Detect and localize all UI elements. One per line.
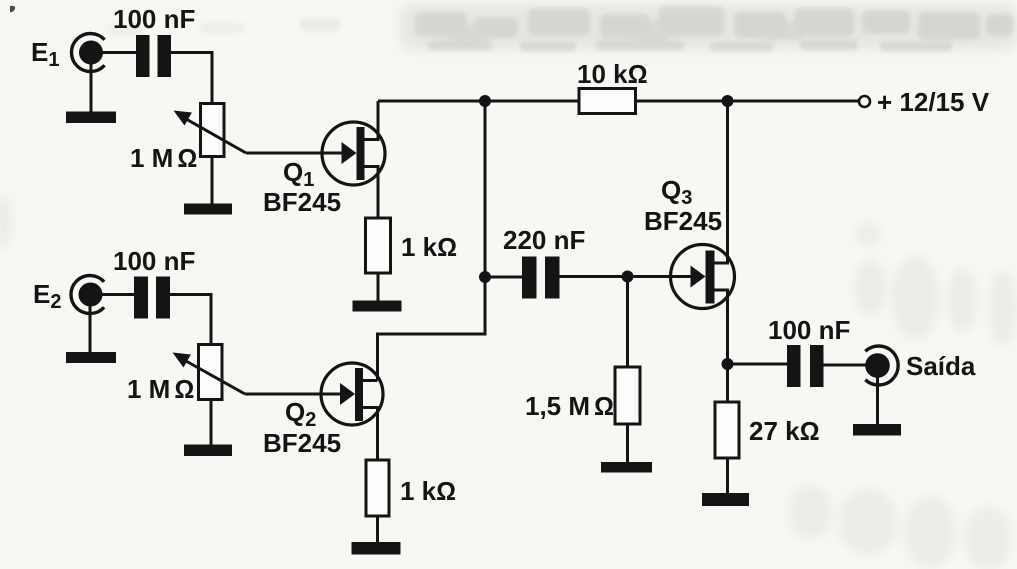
capacitor C2 100 nF (134, 277, 170, 319)
wire node A column down to Q2 drain (378, 101, 486, 381)
node junction output (722, 358, 734, 370)
JFET Q3 (671, 245, 735, 309)
ground under P2 (184, 445, 232, 457)
ground under R5 (601, 462, 652, 473)
wire P2 bottom to ground (210, 400, 213, 449)
node junction A-C3 (479, 271, 491, 283)
svg-text:27 kΩ: 27 kΩ (749, 416, 820, 446)
svg-text:Saída: Saída (906, 351, 976, 381)
potentiometer P2 1 MΩ (173, 345, 246, 400)
wire R4 to ground (376, 516, 379, 546)
wire supply rail right (636, 100, 861, 103)
resistor R1 10 kΩ (579, 89, 636, 114)
wire Q1 drain to rail (365, 101, 379, 140)
node junction rail-A (479, 95, 491, 107)
svg-text:100 nF: 100 nF (113, 4, 195, 34)
svg-text:100 nF: 100 nF (113, 246, 195, 276)
stray scan mark top-left (10, 6, 15, 12)
ground under output jack (853, 424, 901, 436)
ground under E1 (66, 112, 116, 124)
svg-text:1 MΩ: 1 MΩ (127, 374, 194, 404)
svg-text:BF245: BF245 (644, 206, 722, 236)
wire Q2 drain stub (363, 379, 378, 382)
wire Q1 source to R2 (365, 167, 379, 220)
wire supply rail left (378, 100, 579, 103)
wire E2 jack to ground (89, 300, 92, 356)
ground under P1 (184, 204, 232, 215)
input jack E1 (71, 34, 104, 72)
resistor R4 1 kΩ (366, 460, 389, 516)
wire Q3 gate (628, 275, 694, 278)
node junction gate Q3 (622, 271, 634, 283)
potentiometer P1 1 MΩ (174, 104, 247, 157)
wire C1 to P1 top (171, 53, 212, 105)
wire Q3 drain to rail (715, 101, 728, 263)
ground under R4 (352, 542, 401, 555)
resistor R6 27 kΩ (715, 402, 739, 458)
svg-text:1 kΩ: 1 kΩ (400, 476, 456, 506)
wire C3 to Q3 gate node (560, 275, 628, 278)
output jack Saída (865, 346, 898, 385)
svg-text:1 MΩ: 1 MΩ (130, 143, 197, 173)
node junction rail-Q3 (722, 95, 734, 107)
wire gate node to R5 (626, 277, 629, 369)
wire P1 wiper to Q1 gate (246, 152, 344, 155)
svg-text:1,5 MΩ: 1,5 MΩ (525, 391, 614, 421)
wire node A to C3 (485, 276, 522, 279)
resistor R2 1 kΩ (366, 218, 391, 273)
svg-text:220 nF: 220 nF (503, 225, 585, 255)
JFET Q2 (321, 363, 383, 425)
svg-text:BF245: BF245 (263, 428, 341, 458)
wire R6 to ground (726, 458, 729, 497)
wire Q3 source to output node (715, 290, 728, 364)
input jack E2 (71, 276, 104, 314)
wire output jack to ground (876, 375, 879, 428)
capacitor C4 100 nF (787, 345, 824, 387)
wire R5 to ground (626, 424, 629, 466)
wire Q2 source to R4 (363, 408, 378, 462)
wire E1 jack to ground (90, 58, 93, 116)
ground under E2 (66, 352, 116, 363)
svg-text:1 kΩ: 1 kΩ (401, 232, 457, 262)
svg-text:10 kΩ: 10 kΩ (577, 59, 648, 89)
svg-text:BF245: BF245 (263, 187, 341, 217)
JFET Q1 (322, 122, 385, 185)
wire C4 to output jack (824, 364, 867, 367)
wire P1 bottom to ground (211, 157, 214, 208)
supply terminal +12/15V (859, 96, 870, 107)
wire R2 bottom to ground (377, 273, 380, 305)
wire output node to C4 (728, 363, 788, 366)
capacitor C3 220 nF (522, 257, 560, 299)
ground under R6 (702, 493, 749, 506)
wire C2 to P2 top (170, 295, 211, 346)
svg-text:100 nF: 100 nF (768, 315, 850, 345)
svg-text:+ 12/15 V: + 12/15 V (877, 87, 990, 117)
wire P2 wiper to Q2 gate (245, 393, 342, 396)
wire output node to R6 (726, 364, 729, 403)
wire E1 jack to C1 (98, 51, 136, 54)
resistor R5 1,5 MΩ (615, 367, 640, 424)
capacitor C1 100 nF (136, 35, 171, 77)
ground under R2 (353, 301, 402, 312)
wire E2 jack to C2 (98, 293, 134, 296)
